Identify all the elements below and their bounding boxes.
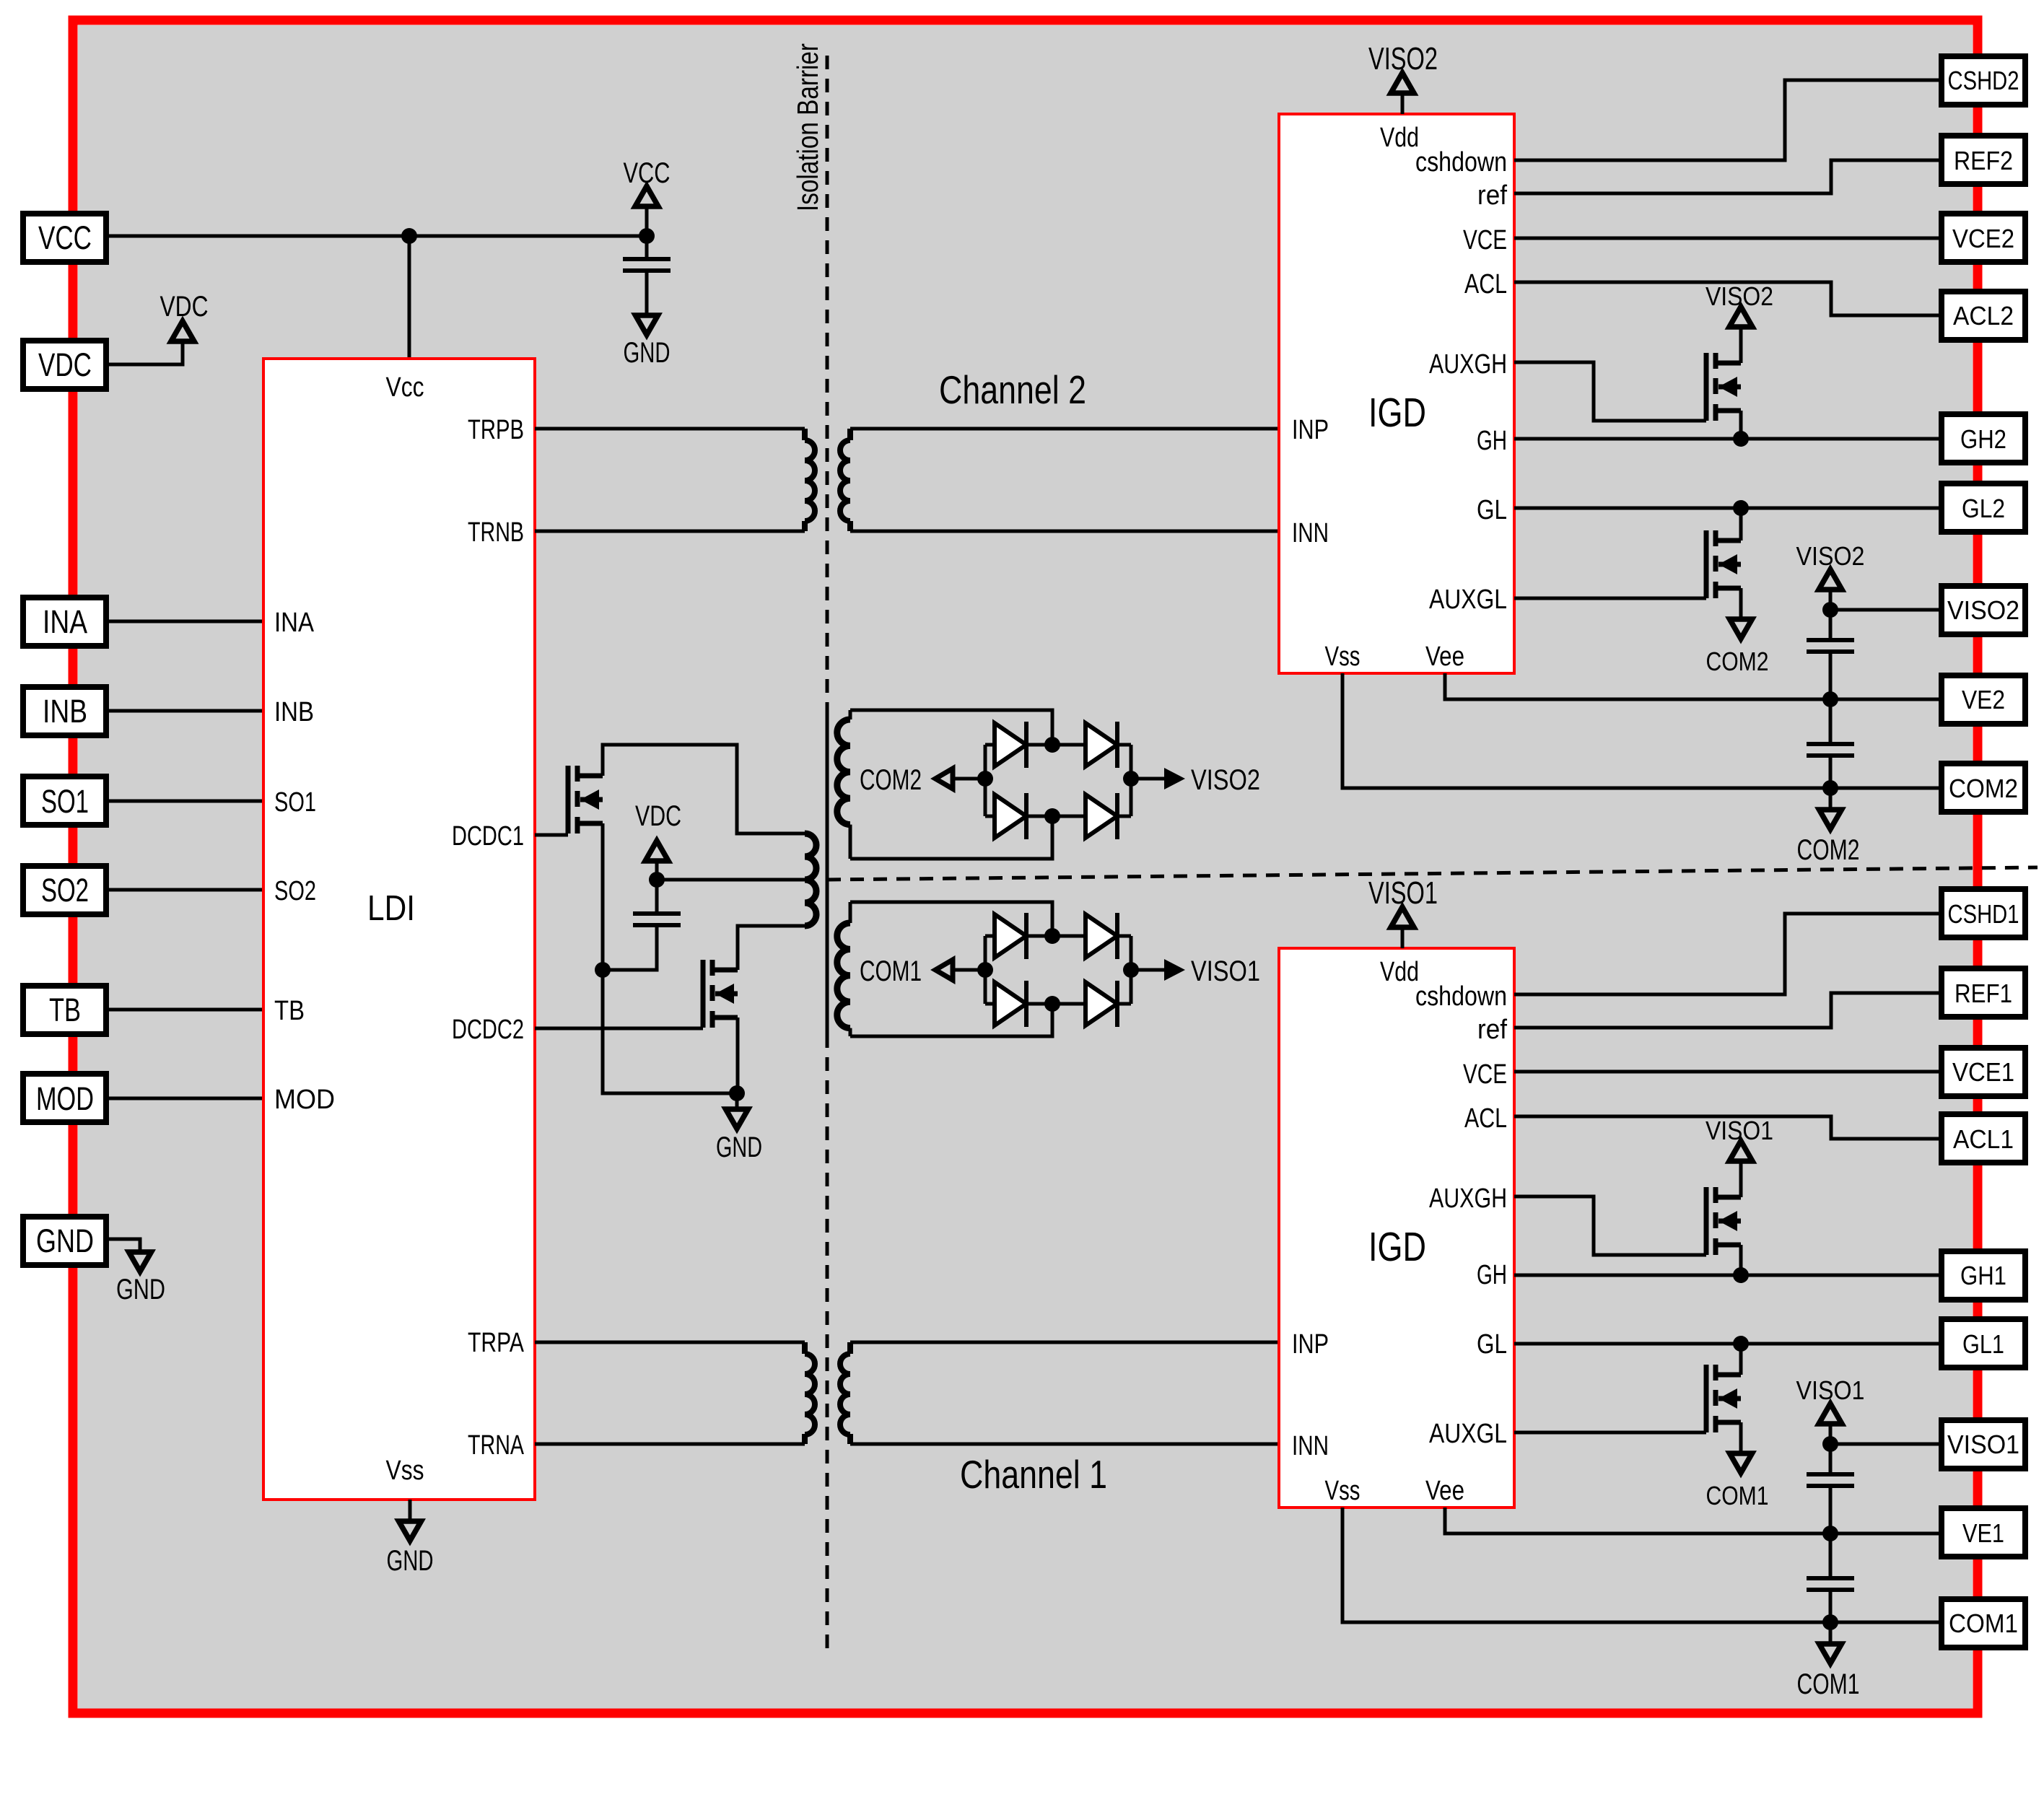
wire VCC rail <box>107 235 647 238</box>
svg-text:VCE: VCE <box>1463 1059 1507 1090</box>
wire DCDC1 gate <box>535 833 568 837</box>
wire Q2 drain to transformer <box>738 926 805 970</box>
diode D21 <box>995 722 1026 768</box>
node VDC center-tap <box>649 872 665 888</box>
svg-text:VISO1: VISO1 <box>1705 1116 1773 1145</box>
wire VDC node to cap <box>603 924 657 970</box>
pin AUXGH label (IGD2) <box>1429 349 1507 380</box>
node Q1 source junction <box>595 962 611 978</box>
port VISO1 <box>1942 1420 2025 1469</box>
svg-text:GND: GND <box>36 1222 94 1259</box>
svg-text:COM2: COM2 <box>1706 647 1769 676</box>
pin INP label (IGD2) <box>1292 415 1329 445</box>
wire bridge right leg (channel 1) <box>1130 936 1133 1004</box>
label Channel 2 <box>939 367 1086 412</box>
pin cshdown label (IGD2) <box>1415 147 1507 178</box>
wire ACL to ACL2 <box>1514 282 1942 315</box>
node VE1 tap <box>1822 1526 1838 1541</box>
power symbol VISO2 (aux high) <box>1729 307 1752 363</box>
transistor Q2H (aux high MOSFET) <box>1706 353 1741 421</box>
pin AUXGL label (IGD2) <box>1429 585 1507 615</box>
svg-text:GH: GH <box>1477 426 1507 456</box>
wire COM2 stub <box>951 777 985 781</box>
svg-text:VISO2: VISO2 <box>1705 281 1773 311</box>
svg-text:CSHD2: CSHD2 <box>1948 66 2019 95</box>
svg-text:SO1: SO1 <box>274 787 316 818</box>
wire ACL to ACL1 <box>1514 1116 1942 1139</box>
wire LDI Vss <box>409 1500 412 1521</box>
svg-text:DCDC2: DCDC2 <box>452 1015 524 1045</box>
wire column upper <box>1829 1444 1833 1474</box>
port GH2 <box>1942 414 2025 463</box>
wire GL to GL2 <box>1514 507 1942 510</box>
svg-text:REF2: REF2 <box>1954 146 2013 175</box>
arrow COM1 (open left) <box>935 960 953 980</box>
node ground junction <box>729 1085 745 1101</box>
svg-text:GL2: GL2 <box>1962 494 2005 523</box>
svg-text:Vee: Vee <box>1425 642 1464 672</box>
transformer T3 secondary coil (channel 2) <box>837 710 850 859</box>
label VISO2 (bridge) <box>1191 764 1260 796</box>
power symbol VISO1 (Vdd IGD1) <box>1391 907 1414 948</box>
arrow VISO1 (filled right) <box>1164 959 1185 981</box>
port MOD <box>23 1074 106 1122</box>
label VDC (center) <box>635 800 681 832</box>
port SO1 <box>23 776 106 825</box>
svg-text:AUXGL: AUXGL <box>1429 585 1507 615</box>
node bridge bottom mid (channel 1) <box>1044 996 1060 1012</box>
port REF2 <box>1942 136 2025 184</box>
pin DCDC2 label (LDI) <box>452 1015 524 1045</box>
wire QL source <box>1739 1422 1743 1453</box>
pin Vdd label (IGD1) <box>1380 957 1419 987</box>
label VCC <box>624 157 671 189</box>
port CSHD2 <box>1942 56 2025 105</box>
svg-text:IGD: IGD <box>1368 390 1426 436</box>
label COM1 (bridge) <box>860 955 922 987</box>
wire QH source to GH <box>1739 411 1743 439</box>
pin INB label (LDI) <box>274 697 314 727</box>
wire SO2 <box>107 888 263 892</box>
svg-text:Vcc: Vcc <box>386 372 424 403</box>
label COM2 (bridge) <box>860 764 922 796</box>
LDI block <box>263 359 535 1500</box>
svg-text:TRNA: TRNA <box>468 1430 524 1461</box>
wire DCDC2 gate <box>535 1027 703 1031</box>
svg-text:VCC: VCC <box>624 157 671 189</box>
pin SO2 label (LDI) <box>274 876 316 906</box>
pin DCDC1 label (LDI) <box>452 821 524 852</box>
pin INP label (IGD1) <box>1292 1329 1329 1360</box>
wire INA <box>107 620 263 623</box>
transformer T2 primary coil <box>805 429 815 531</box>
label COM1 (column) <box>1797 1668 1860 1700</box>
wire bridge upper row (channel 2) <box>985 743 1131 747</box>
port VCE1 <box>1942 1048 2025 1096</box>
svg-text:MOD: MOD <box>274 1085 335 1115</box>
pin GH label (IGD1) <box>1477 1260 1507 1290</box>
wire GND port <box>107 1239 140 1252</box>
svg-text:VCC: VCC <box>38 219 92 256</box>
svg-text:SO1: SO1 <box>41 783 89 820</box>
pin VCE label (IGD1) <box>1463 1059 1507 1090</box>
port VE1 <box>1942 1508 2025 1557</box>
wire MOD <box>107 1097 263 1101</box>
node VE2 tap <box>1822 691 1838 707</box>
IGD block (channel 1) <box>1279 948 1514 1508</box>
label VISO1 (bridge) <box>1191 955 1260 987</box>
IGD block (channel 2) <box>1279 114 1514 673</box>
pin TRNA label (LDI) <box>468 1430 524 1461</box>
wire AUXGH (channel 1) <box>1514 1196 1706 1255</box>
svg-text:ref: ref <box>1477 180 1507 211</box>
node VISO2 tap <box>1822 602 1838 618</box>
capacitor C1a (VISO-VE) <box>1807 1474 1854 1486</box>
svg-text:ACL2: ACL2 <box>1953 301 2014 331</box>
pin VCE label (IGD2) <box>1463 225 1507 255</box>
wire INN (channel 2) <box>850 530 1279 533</box>
label GND (port) <box>116 1274 165 1305</box>
node GL junction (channel 2) <box>1733 500 1749 516</box>
wire Vee to VE2 <box>1445 673 1942 699</box>
wire AUXGL (channel 1) <box>1514 1431 1706 1435</box>
svg-text:COM2: COM2 <box>860 764 922 796</box>
svg-text:VCE2: VCE2 <box>1952 224 2014 253</box>
wire bridge top rail (channel 1) <box>850 902 1052 936</box>
ground symbol COM2 (aux low) <box>1730 619 1752 639</box>
port GH1 <box>1942 1251 2025 1300</box>
diode D11 <box>995 913 1026 959</box>
svg-text:AUXGH: AUXGH <box>1429 349 1507 380</box>
svg-text:DCDC1: DCDC1 <box>452 821 524 852</box>
wire cshdown to CSHD2 <box>1514 80 1942 160</box>
diode D22 <box>1086 722 1117 768</box>
port VDC <box>23 341 106 389</box>
svg-text:Channel 1: Channel 1 <box>960 1452 1107 1497</box>
node COM2 tap <box>1822 780 1838 796</box>
power symbol VISO1 (aux high) <box>1729 1141 1752 1197</box>
wire bridge top rail (channel 2) <box>850 710 1052 745</box>
node GH junction (channel 1) <box>1733 1267 1749 1283</box>
wire VDC pin <box>107 341 183 364</box>
pin ACL label (IGD1) <box>1464 1103 1507 1134</box>
ground symbol COM1 (aux low) <box>1730 1453 1752 1473</box>
node VISO1 (bridge) <box>1123 962 1139 978</box>
label GND (LDI Vss) <box>387 1545 434 1577</box>
wire QL drain to GL <box>1739 1344 1743 1375</box>
port VISO2 <box>1942 586 2025 634</box>
wire bridge upper row (channel 1) <box>985 935 1131 938</box>
svg-text:ACL: ACL <box>1464 1103 1507 1134</box>
pin SO1 label (LDI) <box>274 787 316 818</box>
svg-text:COM1: COM1 <box>860 955 922 987</box>
wire Vss to COM1 <box>1342 1508 1942 1622</box>
svg-text:VE1: VE1 <box>1962 1518 2004 1548</box>
svg-text:VISO2: VISO2 <box>1796 541 1865 571</box>
wire INB <box>107 709 263 713</box>
svg-text:cshdown: cshdown <box>1415 147 1507 178</box>
pin Vss label (LDI) <box>386 1456 424 1486</box>
svg-text:Vee: Vee <box>1425 1476 1464 1506</box>
svg-text:VISO2: VISO2 <box>1368 41 1438 76</box>
wire bridge left leg (channel 2) <box>984 745 987 816</box>
transistor Q1L (aux low MOSFET) <box>1706 1365 1741 1432</box>
pin ACL label (IGD2) <box>1464 269 1507 299</box>
power symbol VISO1 (column) <box>1819 1404 1842 1444</box>
svg-text:VISO2: VISO2 <box>1191 764 1260 796</box>
svg-text:COM2: COM2 <box>1949 774 2018 803</box>
power symbol VDC (input) <box>171 321 194 341</box>
label IGD (channel 2) <box>1368 390 1426 436</box>
svg-text:GL: GL <box>1477 495 1507 525</box>
svg-text:COM1: COM1 <box>1797 1668 1860 1700</box>
svg-text:GND: GND <box>624 337 671 369</box>
pin TB label (LDI) <box>274 996 305 1026</box>
svg-text:SO2: SO2 <box>274 876 316 906</box>
wire C1 to GND <box>645 271 649 315</box>
node COM1 (bridge) <box>977 962 993 978</box>
transformer T1 secondary coil <box>840 1342 850 1444</box>
isolation barrier label <box>791 43 824 211</box>
svg-text:REF1: REF1 <box>1955 979 2012 1008</box>
wire VISO2 stub <box>1131 777 1164 781</box>
svg-text:ACL1: ACL1 <box>1953 1124 2014 1154</box>
svg-text:INP: INP <box>1292 415 1329 445</box>
wire SO1 <box>107 800 263 803</box>
wire VISO2 to port <box>1830 608 1942 612</box>
label Channel 1 <box>960 1452 1107 1497</box>
wire QL drain to GL <box>1739 508 1743 541</box>
wire GH to GH2 <box>1514 437 1942 441</box>
diode D24 <box>1086 793 1117 839</box>
pin TRPB label (LDI) <box>468 415 524 445</box>
pin GH label (IGD2) <box>1477 426 1507 456</box>
pin AUXGH label (IGD1) <box>1429 1183 1507 1214</box>
svg-text:Vss: Vss <box>1325 1476 1361 1506</box>
wire bridge lower row (channel 1) <box>985 1002 1131 1006</box>
node bridge top mid (channel 2) <box>1044 737 1060 753</box>
svg-text:LDI: LDI <box>367 889 415 928</box>
capacitor C2b (VE-COM) <box>1807 744 1854 756</box>
svg-text:GND: GND <box>116 1274 165 1305</box>
transistor Q2 (DCDC2 MOSFET) <box>703 960 738 1028</box>
wire column lower <box>1829 1590 1833 1622</box>
node VISO2 (bridge) <box>1123 771 1139 787</box>
svg-text:VISO1: VISO1 <box>1191 955 1260 987</box>
svg-text:VDC: VDC <box>635 800 681 832</box>
svg-text:AUXGL: AUXGL <box>1429 1419 1507 1449</box>
svg-text:VDC: VDC <box>160 291 209 323</box>
label GND (DC-DC) <box>716 1132 762 1163</box>
label VDC (input) <box>160 291 209 323</box>
wire COM1 ground stem <box>1829 1622 1833 1644</box>
wire INN (channel 1) <box>850 1443 1279 1446</box>
svg-text:Vdd: Vdd <box>1380 123 1419 153</box>
pin ref label (IGD2) <box>1477 180 1507 211</box>
wire Q2 source to ground rail <box>736 1018 740 1093</box>
power symbol VISO2 (column) <box>1819 569 1842 610</box>
svg-text:VISO2: VISO2 <box>1947 595 2019 625</box>
ground symbol COM2 (column) <box>1820 810 1842 829</box>
port COM2 <box>1942 763 2025 812</box>
node VCC-LDI tap <box>401 228 417 244</box>
svg-text:Vdd: Vdd <box>1380 957 1419 987</box>
ground symbol COM1 (column) <box>1820 1644 1842 1663</box>
isolation barrier solid segment (transformer zone) <box>826 705 829 1034</box>
pin Vee label (IGD1) <box>1425 1476 1464 1506</box>
pin TRNB label (LDI) <box>468 517 524 548</box>
isolation barrier dashed line (top) <box>826 56 829 705</box>
node bridge top mid (channel 1) <box>1044 928 1060 944</box>
svg-text:GND: GND <box>387 1545 434 1577</box>
svg-text:INN: INN <box>1292 518 1329 548</box>
pin AUXGL label (IGD1) <box>1429 1419 1507 1449</box>
svg-text:GL: GL <box>1477 1329 1507 1360</box>
diode D23 <box>995 793 1026 839</box>
transformer T3 secondary coil (channel 1) <box>837 902 850 1036</box>
pin Vss label (IGD2) <box>1325 642 1361 672</box>
svg-text:GND: GND <box>716 1132 762 1163</box>
node VCC bypass tap <box>639 228 655 244</box>
power symbol VDC (center) <box>645 841 668 880</box>
port VCE2 <box>1942 214 2025 262</box>
wire Q1 drain to transformer <box>603 745 805 833</box>
pin GL label (IGD2) <box>1477 495 1507 525</box>
pin Vee label (IGD2) <box>1425 642 1464 672</box>
pin TRPA label (LDI) <box>468 1328 525 1358</box>
svg-text:MOD: MOD <box>36 1080 94 1117</box>
wire Vss to COM2 <box>1342 673 1942 788</box>
port GL1 <box>1942 1319 2025 1368</box>
wire bridge right leg (channel 2) <box>1130 745 1133 816</box>
port VE2 <box>1942 675 2025 724</box>
transistor Q1H (aux high MOSFET) <box>1706 1187 1741 1255</box>
power symbol VCC <box>635 186 658 236</box>
port INA <box>23 598 106 646</box>
wire ground rail <box>603 970 738 1093</box>
svg-text:VISO1: VISO1 <box>1796 1375 1865 1405</box>
wire VCC to LDI Vcc <box>408 236 411 359</box>
wire QL source <box>1739 588 1743 619</box>
pin cshdown label (IGD1) <box>1415 981 1507 1012</box>
wire column lower <box>1829 756 1833 788</box>
svg-text:Vss: Vss <box>386 1456 424 1486</box>
svg-text:VE2: VE2 <box>1962 685 2005 714</box>
svg-text:TRPB: TRPB <box>468 415 524 445</box>
svg-text:TB: TB <box>274 996 305 1026</box>
wire bridge bottom rail (channel 1) <box>850 1004 1052 1036</box>
svg-text:INB: INB <box>274 697 314 727</box>
wire cap to VDC node <box>655 880 659 914</box>
svg-text:INB: INB <box>43 693 87 730</box>
svg-text:GL1: GL1 <box>1962 1329 2004 1359</box>
pin Vss label (IGD1) <box>1325 1476 1361 1506</box>
ground symbol GND (VCC bypass) <box>636 315 658 335</box>
wire column mid2 <box>1829 1533 1833 1578</box>
wire ref to REF1 <box>1514 993 1942 1028</box>
node bridge bottom mid (channel 2) <box>1044 808 1060 824</box>
label VISO2 (Vdd IGD2) <box>1368 41 1438 76</box>
diode D12 <box>1086 913 1117 959</box>
port SO2 <box>23 866 106 914</box>
wire TRPA <box>535 1341 805 1344</box>
svg-text:GH2: GH2 <box>1960 424 2006 454</box>
svg-text:VCE1: VCE1 <box>1952 1057 2014 1087</box>
wire VCE to VCE1 <box>1514 1070 1942 1074</box>
wire AUXGL (channel 2) <box>1514 597 1706 600</box>
node COM1 tap <box>1822 1614 1838 1630</box>
svg-text:INP: INP <box>1292 1329 1329 1360</box>
ground symbol GND (LDI Vss) <box>399 1521 422 1541</box>
transformer T1 primary coil <box>805 1342 815 1444</box>
label VISO2 (column) <box>1796 541 1865 571</box>
wire COM2 ground stem <box>1829 788 1833 810</box>
pin INN label (IGD2) <box>1292 518 1329 548</box>
wire INP (channel 2) <box>850 427 1279 431</box>
transformer T2 secondary coil <box>840 429 850 531</box>
label COM2 (column) <box>1797 834 1860 866</box>
svg-text:VISO1: VISO1 <box>1368 875 1438 911</box>
label VISO1 (aux high) <box>1705 1116 1773 1145</box>
wire INP (channel 1) <box>850 1341 1279 1344</box>
svg-text:IGD: IGD <box>1368 1224 1426 1270</box>
diode D13 <box>995 981 1026 1027</box>
isolation barrier dashed line (bottom) <box>826 1034 829 1651</box>
wire bridge bottom rail (channel 2) <box>850 816 1052 859</box>
wire TRNA <box>535 1443 805 1446</box>
wire Q1 source <box>601 823 605 970</box>
diode D14 <box>1086 981 1117 1027</box>
node COM2 (bridge) <box>977 771 993 787</box>
wire column mid1 <box>1829 652 1833 699</box>
arrow COM2 (open left) <box>935 769 953 789</box>
wire VISO1 to port <box>1830 1443 1942 1446</box>
svg-text:SO2: SO2 <box>41 872 89 909</box>
label COM1 (aux low) <box>1706 1481 1769 1510</box>
wire TB <box>107 1008 263 1012</box>
node GL junction (channel 1) <box>1733 1336 1749 1352</box>
svg-text:TRNB: TRNB <box>468 517 524 548</box>
wire COM1 stub <box>951 968 985 972</box>
ground symbol GND (port) <box>129 1252 152 1272</box>
svg-text:cshdown: cshdown <box>1415 981 1507 1012</box>
pin Vdd label (IGD2) <box>1380 123 1419 153</box>
svg-text:GH: GH <box>1477 1260 1507 1290</box>
wire bridge lower row (channel 2) <box>985 815 1131 818</box>
label LDI <box>367 889 415 928</box>
port VCC <box>23 214 106 262</box>
wire bridge left leg (channel 1) <box>984 936 987 1004</box>
port INB <box>23 687 106 735</box>
capacitor C2a (VISO-VE) <box>1807 640 1854 652</box>
capacitor C2 (VDC) <box>633 914 681 925</box>
svg-text:Vss: Vss <box>1325 642 1361 672</box>
svg-text:VCE: VCE <box>1463 225 1507 255</box>
power symbol VISO2 (Vdd IGD2) <box>1391 73 1414 114</box>
wire VCE to VCE2 <box>1514 237 1942 240</box>
wire center tap <box>657 878 805 882</box>
pin Vcc label <box>386 372 424 403</box>
svg-text:Isolation Barrier: Isolation Barrier <box>791 43 824 211</box>
node VISO1 tap <box>1822 1436 1838 1452</box>
label VISO2 (aux high) <box>1705 281 1773 311</box>
pin GL label (IGD1) <box>1477 1329 1507 1360</box>
wire column mid2 <box>1829 699 1833 744</box>
wire TRPB <box>535 427 805 431</box>
svg-text:TRPA: TRPA <box>468 1328 525 1358</box>
label VISO1 (Vdd IGD1) <box>1368 875 1438 911</box>
wire GH to GH1 <box>1514 1274 1942 1277</box>
